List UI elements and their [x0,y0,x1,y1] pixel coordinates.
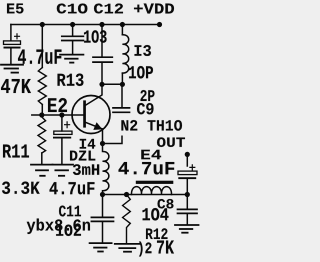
wire C12 to collector rail [101,63,103,85]
node dot collector rail left [99,82,104,87]
label N2 TH10 [121,120,182,131]
wire mid cap stem [61,115,63,131]
label C10 [57,4,88,14]
label +VDD [134,4,174,14]
inductor I3 coil [122,35,128,73]
wire C11 to ground [102,222,104,242]
label R12 [146,228,168,239]
label C12 [94,4,123,14]
label )2 [139,242,152,257]
capacitor C12 [93,57,112,62]
node dot OUT [185,152,190,157]
capacitor C11 102 [91,217,113,221]
label R13 [58,74,84,87]
capacitor C10 103 [62,36,84,40]
capacitor C8 104 [178,209,198,213]
label 103 [84,30,107,43]
label E4 [141,150,161,160]
label 2P [141,90,155,101]
wire bottom rail [103,194,188,196]
node dot bottom rail R12 [124,192,129,197]
wire C8 cap stem [186,195,188,209]
resistor R12 zigzag [123,195,131,243]
label ybx8.6n [27,219,90,235]
label C11 [59,206,81,217]
wire E4 to bottom rail [186,179,188,194]
label 3.3K [2,182,40,195]
wire I3 stem [121,25,123,35]
wire C11 stem [102,195,104,217]
capacitor C9 2P [113,108,130,112]
label C8 [158,199,174,209]
wire emitter stem [102,129,104,144]
label 4.7uF mid [50,182,95,194]
resistor R13 zigzag [38,68,46,105]
wire R11 to ground [41,153,43,164]
node dot top rail C12 [99,22,104,27]
transistor base bar [83,100,86,127]
node dot top rail C10 [70,22,75,27]
ground C10 [60,55,83,63]
label 102 [56,225,81,237]
node dot base rail cap [59,112,64,117]
ground E5 [1,65,23,73]
ground C11 [90,243,112,251]
wire emitter node to C9 [103,136,123,143]
wire base rail [32,114,84,116]
transistor Q1 circle [72,96,110,134]
label R11 [3,145,29,158]
label 3mH [73,164,99,175]
ground C8 [175,225,199,233]
label 4.7uF top-left [18,50,62,65]
label I3 [135,45,152,56]
node dot collector rail right [120,82,125,87]
wire C8 to ground [186,214,188,224]
wire R13 column stem [41,25,43,68]
label E5 [7,4,24,14]
inductor output filter coil horizontal [131,187,171,195]
node dot top rail I3 [120,22,125,27]
node dot +VDD end [157,22,162,27]
transistor emitter arrow [93,122,102,130]
label C9 [137,103,154,114]
transistor emitter line [86,123,103,130]
wire C9 to collector rail [121,84,123,107]
capacitor E4 electrolytic 4.7uF [178,165,197,179]
wire collector rail [102,83,122,85]
label OUT [157,137,185,147]
label 104 [143,208,169,221]
wire E5 column stem [10,25,12,41]
label 7K [157,241,174,254]
inductor I4 DZL 3mH coil [103,144,109,195]
ground R11 [31,165,53,176]
wire C10 stem [72,25,74,36]
node dot base rail R11 [39,112,44,117]
wire mid cap to ground [61,139,63,164]
wire below cap to ground [10,49,12,65]
wire top rail [11,24,160,26]
label DZL [70,151,95,161]
ground R12 [115,244,140,252]
label E2 [48,98,67,112]
wire collector stub [86,84,102,105]
wire OUT stem [186,154,188,166]
node dot top rail R13 [40,22,45,27]
capacitor electrolytic 4.7uF at E5 node [4,34,21,49]
inductor output filter core bar [136,181,174,184]
wire C10 to ground [72,41,74,53]
capacitor electrolytic 4.7uF mid [53,122,72,139]
ground mid cap [53,165,74,176]
node dot bottom rail left [100,192,105,197]
wire I3 to collector rail [121,73,123,84]
node dot bottom rail right [185,192,190,197]
label 4.7uF right [119,162,175,175]
resistor R11 zigzag [38,115,46,153]
label 47K [1,79,31,93]
node dot emitter [100,141,105,146]
wire C12 stem [101,25,103,57]
label I4 [80,139,96,149]
wire R13 to base rail [41,105,43,116]
label 10P [129,66,153,79]
